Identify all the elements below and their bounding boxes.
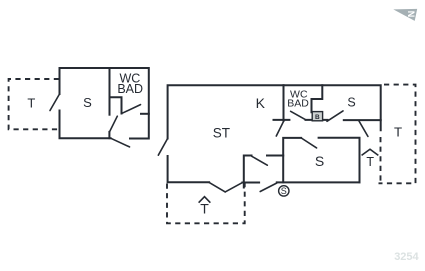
svg-text:T: T bbox=[27, 96, 35, 111]
svg-text:T: T bbox=[366, 155, 374, 169]
svg-text:T: T bbox=[394, 125, 402, 140]
svg-text:S: S bbox=[315, 153, 324, 169]
svg-text:N: N bbox=[406, 11, 416, 18]
svg-text:ST: ST bbox=[213, 125, 230, 140]
svg-text:T: T bbox=[200, 201, 209, 217]
svg-text:S: S bbox=[83, 95, 92, 110]
svg-text:BAD: BAD bbox=[287, 98, 309, 110]
svg-text:S: S bbox=[347, 96, 355, 110]
svg-text:S: S bbox=[281, 186, 287, 196]
svg-text:B: B bbox=[315, 114, 320, 121]
svg-text:BAD: BAD bbox=[117, 82, 143, 96]
svg-text:K: K bbox=[256, 95, 266, 111]
svg-text:3254: 3254 bbox=[394, 251, 419, 263]
